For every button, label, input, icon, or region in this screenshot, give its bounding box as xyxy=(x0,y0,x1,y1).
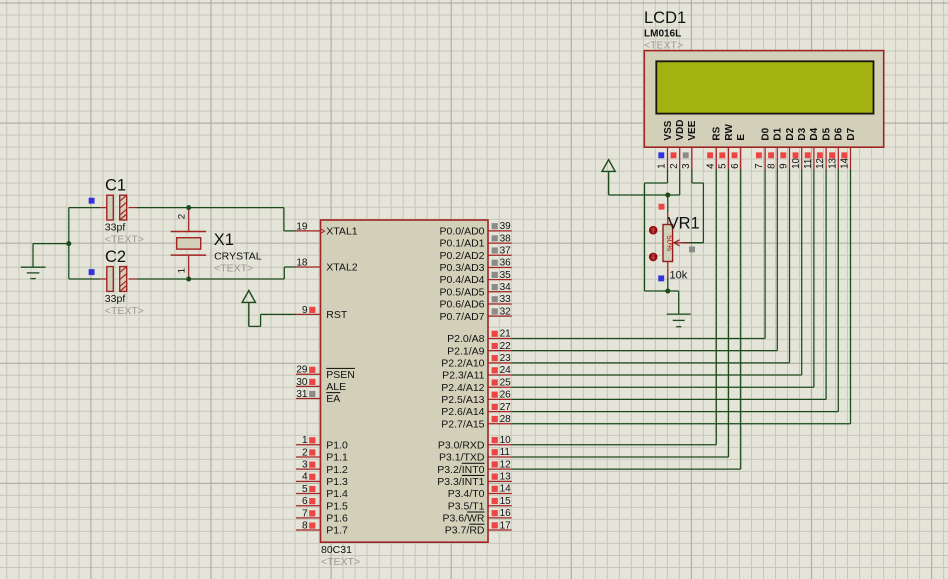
svg-text:RST: RST xyxy=(326,309,348,321)
svg-text:E: E xyxy=(736,134,747,141)
svg-text:P2.2/A10: P2.2/A10 xyxy=(441,357,484,369)
svg-text:P1.2: P1.2 xyxy=(326,464,348,476)
svg-text:15: 15 xyxy=(500,496,512,507)
svg-text:D4: D4 xyxy=(809,127,820,140)
svg-text:11: 11 xyxy=(803,159,814,169)
svg-text:P2.1/A9: P2.1/A9 xyxy=(447,345,485,357)
svg-text:P0.3/AD3: P0.3/AD3 xyxy=(440,262,485,274)
svg-text:P2.7/A15: P2.7/A15 xyxy=(441,418,484,430)
svg-text:17: 17 xyxy=(500,520,512,531)
svg-text:33: 33 xyxy=(500,294,512,305)
svg-text:8: 8 xyxy=(302,520,308,531)
svg-text:10: 10 xyxy=(791,157,802,168)
svg-text:D0: D0 xyxy=(760,127,771,140)
svg-text:39: 39 xyxy=(500,221,512,232)
svg-text:11: 11 xyxy=(500,447,511,458)
svg-text:31: 31 xyxy=(296,389,308,400)
svg-text:P0.0/AD0: P0.0/AD0 xyxy=(440,226,485,238)
svg-text:EA: EA xyxy=(326,393,340,405)
svg-text:RS: RS xyxy=(712,126,723,140)
svg-text:32: 32 xyxy=(500,306,512,317)
svg-text:21: 21 xyxy=(500,329,512,340)
svg-text:12: 12 xyxy=(500,459,512,470)
svg-text:P2.0/A8: P2.0/A8 xyxy=(447,333,485,345)
svg-text:6: 6 xyxy=(302,496,308,507)
svg-text:3: 3 xyxy=(302,460,308,471)
svg-text:P3.2/INT0: P3.2/INT0 xyxy=(437,464,484,476)
svg-text:ALE: ALE xyxy=(326,381,346,393)
svg-text:36: 36 xyxy=(500,258,512,269)
svg-text:<TEXT>: <TEXT> xyxy=(105,305,144,317)
svg-text:CRYSTAL: CRYSTAL xyxy=(214,250,262,262)
svg-text:<TEXT>: <TEXT> xyxy=(214,263,253,275)
svg-text:<TEXT>: <TEXT> xyxy=(321,556,360,568)
svg-text:D7: D7 xyxy=(846,127,857,140)
svg-text:14: 14 xyxy=(500,484,512,495)
svg-text:16: 16 xyxy=(500,508,512,519)
svg-text:D5: D5 xyxy=(821,127,832,140)
svg-text:3: 3 xyxy=(681,163,692,169)
svg-text:13: 13 xyxy=(500,472,512,483)
svg-text:35: 35 xyxy=(500,270,512,281)
svg-text:P3.3/INT1: P3.3/INT1 xyxy=(437,476,484,488)
svg-text:5: 5 xyxy=(718,163,729,169)
svg-text:X1: X1 xyxy=(214,231,234,249)
svg-text:VR1: VR1 xyxy=(668,214,700,232)
svg-text:1: 1 xyxy=(177,268,188,273)
svg-text:80C31: 80C31 xyxy=(321,544,352,556)
svg-text:1: 1 xyxy=(302,435,308,446)
svg-text:VEE: VEE xyxy=(687,120,698,140)
svg-text:13: 13 xyxy=(827,157,838,168)
svg-text:P2.3/A11: P2.3/A11 xyxy=(442,370,485,382)
svg-text:P1.6: P1.6 xyxy=(326,512,348,524)
svg-text:P3.4/T0: P3.4/T0 xyxy=(448,488,485,500)
svg-text:37: 37 xyxy=(500,245,512,256)
svg-text:10k: 10k xyxy=(670,269,688,281)
svg-text:P2.4/A12: P2.4/A12 xyxy=(441,382,484,394)
svg-text:28: 28 xyxy=(500,414,512,425)
svg-text:P3.1/TXD: P3.1/TXD xyxy=(439,452,485,464)
svg-text:34: 34 xyxy=(500,282,512,293)
svg-text:P2.5/A13: P2.5/A13 xyxy=(441,394,484,406)
svg-text:P1.3: P1.3 xyxy=(326,476,348,488)
svg-text:D3: D3 xyxy=(797,127,808,140)
svg-text:7: 7 xyxy=(302,508,308,519)
svg-text:P2.6/A14: P2.6/A14 xyxy=(441,406,484,418)
svg-text:D1: D1 xyxy=(773,127,784,140)
svg-text:8: 8 xyxy=(766,163,777,169)
svg-text:P3.6/WR: P3.6/WR xyxy=(442,512,484,524)
svg-text:23: 23 xyxy=(500,353,512,364)
svg-text:LCD1: LCD1 xyxy=(644,9,686,27)
svg-text:7: 7 xyxy=(754,163,765,168)
svg-text:4: 4 xyxy=(302,472,308,483)
svg-text:2: 2 xyxy=(302,447,308,458)
svg-text:C2: C2 xyxy=(105,248,126,266)
svg-text:P3.0/RXD: P3.0/RXD xyxy=(438,439,485,451)
svg-text:C1: C1 xyxy=(105,177,126,195)
svg-text:2: 2 xyxy=(177,214,188,219)
svg-text:P0.2/AD2: P0.2/AD2 xyxy=(440,250,485,262)
svg-text:P1.5: P1.5 xyxy=(326,500,348,512)
svg-text:P0.1/AD1: P0.1/AD1 xyxy=(440,238,485,250)
svg-text:XTAL2: XTAL2 xyxy=(326,262,357,274)
svg-text:22: 22 xyxy=(500,341,512,352)
svg-text:VDD: VDD xyxy=(675,119,686,140)
svg-text:4: 4 xyxy=(705,163,716,169)
svg-text:33pf: 33pf xyxy=(105,221,126,233)
svg-text:LM016L: LM016L xyxy=(644,29,681,40)
svg-text:12: 12 xyxy=(815,158,826,169)
svg-text:PSEN: PSEN xyxy=(326,369,355,381)
svg-text:VSS: VSS xyxy=(663,120,674,140)
svg-text:6: 6 xyxy=(730,163,741,169)
svg-text:P1.7: P1.7 xyxy=(326,525,348,537)
svg-text:26: 26 xyxy=(500,390,512,401)
svg-text:P1.4: P1.4 xyxy=(326,488,348,500)
svg-text:29: 29 xyxy=(296,365,308,376)
svg-text:10: 10 xyxy=(500,435,512,446)
svg-text:<TEXT>: <TEXT> xyxy=(105,234,144,246)
svg-text:25: 25 xyxy=(500,377,512,388)
svg-text:P0.5/AD5: P0.5/AD5 xyxy=(440,286,485,298)
svg-text:9: 9 xyxy=(779,163,790,168)
svg-text:30: 30 xyxy=(296,377,308,388)
svg-text:50%: 50% xyxy=(665,235,674,251)
svg-text:P0.7/AD7: P0.7/AD7 xyxy=(440,311,485,323)
svg-text:5: 5 xyxy=(302,484,308,495)
svg-text:P3.5/T1: P3.5/T1 xyxy=(448,500,485,512)
svg-text:27: 27 xyxy=(500,402,512,413)
svg-text:P0.6/AD6: P0.6/AD6 xyxy=(440,299,485,311)
svg-text:P3.7/RD: P3.7/RD xyxy=(445,525,485,537)
svg-text:33pf: 33pf xyxy=(105,293,126,305)
svg-text:1: 1 xyxy=(657,163,668,168)
svg-text:P1.1: P1.1 xyxy=(326,452,348,464)
svg-text:14: 14 xyxy=(840,157,851,168)
svg-text:P1.0: P1.0 xyxy=(326,439,348,451)
svg-text:P0.4/AD4: P0.4/AD4 xyxy=(440,274,485,286)
svg-text:2: 2 xyxy=(669,163,680,168)
svg-text:24: 24 xyxy=(500,365,512,376)
svg-text:D6: D6 xyxy=(834,127,845,140)
svg-text:RW: RW xyxy=(724,124,735,141)
svg-text:38: 38 xyxy=(500,233,512,244)
svg-text:D2: D2 xyxy=(785,127,796,140)
svg-text:XTAL1: XTAL1 xyxy=(326,226,357,238)
